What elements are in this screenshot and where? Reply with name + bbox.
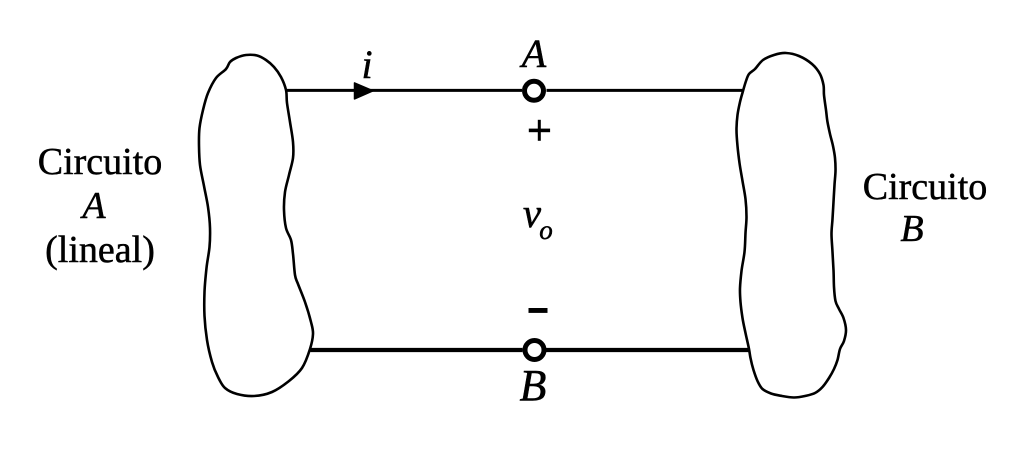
node B terminal circle <box>525 341 544 360</box>
minus sign of vo <box>529 308 548 313</box>
label: Circuito A (lineal) <box>20 140 180 272</box>
wire bottom (node B wire from circuit A to circuit B) <box>311 348 523 352</box>
circuit B blob (right cloud outline) <box>737 53 847 398</box>
current arrow i <box>355 83 374 99</box>
label: node B <box>508 364 558 408</box>
label: node A <box>509 32 559 76</box>
label: vo voltage (subscript o) <box>521 217 571 244</box>
label: current i <box>342 43 392 87</box>
wire top (node A wire from circuit A to circuit B) <box>287 89 523 92</box>
plus sign of vo <box>529 129 550 133</box>
label: vo voltage (v) <box>507 193 557 234</box>
circuit A blob (left cloud outline) <box>199 55 313 396</box>
node A terminal circle <box>525 81 544 100</box>
label: Circuito B <box>845 166 1005 250</box>
